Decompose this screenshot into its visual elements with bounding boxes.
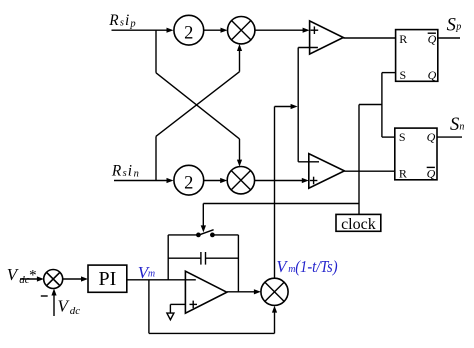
- multiplier M2: [227, 167, 254, 194]
- comparator U2: [309, 154, 345, 189]
- wire latch U4 S input stub: [382, 136, 395, 138]
- svg-text:Q: Q: [428, 68, 437, 82]
- svg-text:clock: clock: [341, 216, 376, 233]
- wire feedback right vertical: [237, 235, 239, 292]
- comparator U1: [310, 21, 344, 54]
- svg-text:p: p: [455, 22, 461, 33]
- wire diagonal cross D1 (Rsip to lower multiplier): [156, 73, 240, 139]
- summing junction S1: [44, 270, 63, 289]
- wire junction stub up from Rsin line: [155, 136, 157, 180]
- wire Sn output: [437, 136, 462, 138]
- svg-text:n: n: [459, 121, 464, 132]
- svg-text:S: S: [400, 68, 407, 82]
- svg-text:R: R: [399, 32, 407, 46]
- wire M1 to comparator U1: [255, 28, 310, 33]
- multiplier M1: [228, 17, 255, 44]
- label Rsip: [108, 12, 135, 30]
- svg-text:R: R: [111, 162, 122, 179]
- wire switch control line: [203, 203, 359, 205]
- clock box: [336, 214, 381, 233]
- label Vm: [138, 263, 155, 282]
- multiplier M3: [261, 278, 288, 305]
- wire Rsin input: [114, 178, 174, 183]
- label Vm(1-t/Ts): [276, 257, 337, 276]
- wire Rsip input: [112, 28, 174, 33]
- svg-text:i: i: [125, 12, 129, 29]
- svg-text:R: R: [399, 166, 407, 180]
- capacitor C1: [168, 252, 238, 265]
- svg-text:R: R: [108, 12, 119, 29]
- wire PI to integrator (Vm node): [127, 279, 196, 281]
- label Vdc: [58, 297, 81, 318]
- wire M2 to comparator U2: [255, 178, 309, 183]
- svg-text:PI: PI: [99, 268, 117, 290]
- svg-text:S: S: [399, 130, 406, 144]
- label Sp: [447, 16, 462, 36]
- wire M3 output riser to reference net: [275, 104, 298, 278]
- svg-text:S: S: [450, 115, 459, 135]
- svg-text:s: s: [120, 18, 124, 29]
- svg-text:s: s: [123, 168, 127, 179]
- svg-text:2: 2: [184, 174, 193, 194]
- wire Vdc feedback arrow: [51, 289, 56, 317]
- wire summing junction to PI: [63, 276, 88, 281]
- wire reference net vertical: [297, 48, 299, 162]
- wire Vdc* input arrow: [20, 276, 44, 281]
- wire U1 output to latch U3 R: [343, 37, 395, 39]
- wire into multiplier M1 bottom: [237, 44, 242, 72]
- wire clock branch to S bus: [359, 104, 382, 106]
- svg-text:S: S: [447, 16, 456, 36]
- label Sn: [450, 115, 464, 135]
- wire latch U3 S input stub: [382, 72, 396, 74]
- wire S bus vertical (U3 S to U4 S): [381, 73, 383, 138]
- wire diagonal cross D2 (Rsin to upper multiplier): [156, 72, 240, 137]
- wire feedback left vertical: [167, 235, 169, 280]
- wire U2 minus input: [298, 161, 319, 163]
- wire junction stub down from Rsip line: [155, 30, 157, 73]
- svg-text:i: i: [128, 162, 132, 179]
- wire Vm bottom feedback to M3: [149, 280, 277, 334]
- svg-text:Q: Q: [427, 130, 436, 144]
- svg-text:p: p: [129, 19, 135, 30]
- wire switch control drop with arrow: [201, 204, 206, 233]
- ground: [167, 304, 174, 319]
- svg-text:Q: Q: [428, 32, 437, 46]
- svg-text:n: n: [134, 168, 139, 179]
- wire G1 to M1: [204, 28, 228, 33]
- label Rsin: [111, 162, 139, 179]
- label Vdc*: [7, 265, 37, 286]
- SR latch U4: [395, 128, 437, 180]
- SR latch U3: [396, 30, 438, 83]
- wire Sp output: [438, 37, 460, 39]
- wire U1 minus input: [298, 47, 318, 49]
- wire G2 to M2: [204, 178, 227, 183]
- wire clock riser: [358, 105, 360, 215]
- gain block G1 (x2): [174, 15, 204, 45]
- wire integrator output to M3: [227, 289, 261, 294]
- minus sign at summing junction: [41, 295, 48, 297]
- svg-text:dc: dc: [70, 305, 81, 317]
- wire U2 output to latch U4 R: [344, 170, 394, 172]
- integrator op-amp U5: [170, 271, 226, 313]
- switch SW1 (integrator reset): [168, 230, 238, 237]
- wire into multiplier M2 top: [237, 139, 242, 167]
- svg-text:m: m: [148, 268, 155, 279]
- PI block: [88, 265, 127, 292]
- gain block G2 (x2): [174, 165, 204, 195]
- svg-text:Q: Q: [427, 166, 436, 180]
- svg-text:2: 2: [184, 24, 193, 44]
- svg-text:(1-t/Ts): (1-t/Ts): [295, 257, 337, 276]
- svg-text:*: *: [28, 267, 36, 283]
